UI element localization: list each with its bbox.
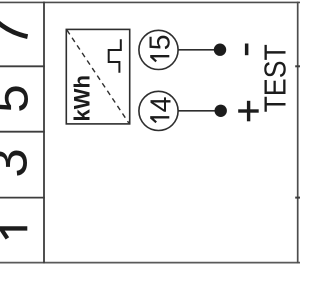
svg-text:kWh: kWh	[70, 75, 95, 121]
svg-text:5: 5	[144, 34, 176, 50]
svg-text:5: 5	[0, 84, 39, 113]
svg-text:3: 3	[0, 148, 38, 177]
svg-text:4: 4	[146, 96, 178, 112]
svg-text:TEST: TEST	[259, 44, 293, 112]
